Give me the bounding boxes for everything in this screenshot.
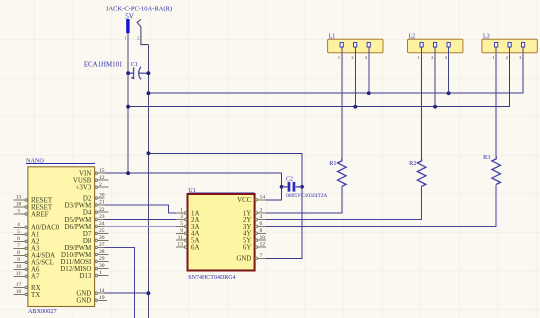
junction GND rail at sleeve [147, 91, 151, 95]
svg-text:2: 2 [99, 182, 102, 188]
svg-text:GND: GND [236, 256, 251, 263]
capacitor C1 [128, 67, 148, 80]
svg-text:2: 2 [137, 36, 139, 41]
svg-text:15: 15 [99, 168, 105, 174]
svg-text:9: 9 [17, 257, 20, 263]
wire D3 to 1A [104, 205, 176, 213]
svg-text:5: 5 [17, 229, 20, 235]
svg-text:10: 10 [16, 264, 22, 270]
svg-text:3: 3 [180, 214, 183, 220]
svg-text:23: 23 [99, 214, 105, 220]
junction C2 left [280, 185, 284, 189]
jack J1 sleeve contact [137, 19, 148, 44]
svg-text:JACK-C-PC-10A-RA(R): JACK-C-PC-10A-RA(R) [106, 6, 172, 13]
svg-text:D3/PWM: D3/PWM [64, 202, 91, 209]
wire L2 pin1 to R2 [421, 53, 423, 158]
svg-text:TX: TX [31, 292, 40, 299]
svg-text:10: 10 [260, 235, 266, 241]
NANO left pin numbers [16, 195, 22, 295]
svg-text:SN74HCT04DRG4: SN74HCT04DRG4 [188, 275, 235, 281]
svg-text:17: 17 [16, 282, 22, 288]
svg-text:D12/MISO: D12/MISO [60, 266, 91, 273]
svg-text:R3: R3 [483, 154, 490, 161]
wire 5V rail to connector pin2s [128, 53, 510, 107]
svg-text:22: 22 [99, 207, 105, 213]
svg-text:A5/SCL: A5/SCL [31, 260, 54, 267]
svg-text:6A: 6A [191, 245, 199, 252]
wire NANO GND to sleeve [104, 292, 148, 294]
junction C1 right on GND net [147, 71, 151, 75]
svg-text:A1: A1 [31, 232, 40, 239]
wire D5 to 2A [104, 219, 176, 221]
wire GND sleeve vertical [147, 45, 149, 318]
wire GND riser to U1 GND pin [266, 187, 302, 258]
svg-text:A3: A3 [31, 246, 40, 253]
svg-text:11: 11 [178, 235, 184, 241]
svg-text:7: 7 [17, 243, 20, 249]
svg-text:4: 4 [260, 214, 263, 220]
svg-text:1: 1 [180, 208, 183, 214]
svg-text:D9/PWM: D9/PWM [64, 245, 91, 252]
svg-text:VUSB: VUSB [73, 178, 92, 185]
svg-text:26: 26 [99, 235, 105, 241]
svg-text:6Y: 6Y [243, 245, 251, 252]
IC U1 SN74HCT04DRG4 [188, 187, 255, 281]
svg-text:1: 1 [124, 36, 126, 41]
resistor R2 [417, 158, 426, 186]
svg-text:8: 8 [260, 228, 263, 234]
svg-text:VCC: VCC [237, 197, 252, 204]
svg-text:C2: C2 [286, 176, 293, 182]
svg-text:ABX00027: ABX00027 [28, 308, 57, 315]
junction GND rail at L1 pin3 [367, 91, 371, 95]
junction GND rail at L2 pin3 [447, 91, 451, 95]
svg-text:C1: C1 [131, 62, 138, 68]
junction 5V rail at L2 pin2 [433, 105, 437, 109]
svg-text:A4/SDA: A4/SDA [31, 253, 55, 260]
svg-text:A2: A2 [31, 239, 40, 246]
svg-text:D7: D7 [83, 231, 92, 238]
NANO left pin names [31, 197, 60, 298]
svg-text:8: 8 [17, 250, 20, 256]
U1 right pins VCC 1Y-6Y GND [255, 199, 266, 260]
svg-text:D11/MOSI: D11/MOSI [61, 259, 92, 266]
svg-text:21: 21 [99, 200, 105, 206]
svg-text:12: 12 [260, 242, 266, 248]
svg-text:12: 12 [99, 175, 105, 181]
svg-text:D4: D4 [83, 210, 92, 217]
svg-text:20: 20 [99, 193, 105, 199]
junction NANO GND at sleeve [147, 291, 151, 295]
svg-text:24: 24 [99, 221, 105, 227]
capacitor C2 [282, 182, 302, 192]
wire 3Y to R3 [266, 184, 496, 226]
svg-text:L1: L1 [329, 34, 336, 40]
svg-text:4: 4 [17, 222, 20, 228]
svg-text:D6/PWM: D6/PWM [64, 224, 91, 231]
connector L2 [408, 34, 463, 107]
wire 1Y to R1 [266, 186, 342, 213]
svg-text:L2: L2 [408, 34, 415, 40]
capacitor C1 polarity mark [131, 77, 133, 79]
svg-text:18: 18 [16, 202, 22, 208]
svg-text:GND: GND [76, 298, 91, 305]
svg-text:2: 2 [260, 208, 263, 214]
wire D9 down off-sheet [104, 247, 134, 318]
svg-text:14: 14 [260, 194, 266, 200]
svg-text:VIN: VIN [79, 171, 91, 178]
junction C1 left on 5V net [126, 71, 130, 75]
junction 5V rail at L1 pin2 [353, 105, 357, 109]
svg-text:25: 25 [99, 228, 105, 234]
connector L3 [482, 34, 537, 60]
U1 left pin numbers [177, 208, 183, 248]
NANO right pins [95, 172, 108, 301]
svg-text:29: 29 [99, 256, 105, 262]
connector L1 [328, 34, 383, 107]
junction C2 right [300, 185, 304, 189]
svg-text:A0/DAC0: A0/DAC0 [31, 225, 60, 232]
U1 left pins 1A-6A [176, 212, 187, 249]
svg-text:A6: A6 [31, 267, 40, 274]
U1 left pin names [191, 210, 199, 251]
svg-text:0805YC103J4T2A: 0805YC103J4T2A [286, 193, 327, 199]
junction VIN at tip wire [126, 171, 130, 175]
svg-text:RESET: RESET [31, 204, 53, 211]
svg-text:D2: D2 [83, 195, 92, 202]
svg-text:1: 1 [99, 270, 102, 276]
svg-text:19: 19 [99, 295, 105, 301]
junction 5V rail at tip [126, 105, 130, 109]
svg-text:3: 3 [17, 209, 20, 215]
svg-text:RX: RX [31, 285, 41, 292]
svg-text:ECA1HM101: ECA1HM101 [84, 62, 123, 69]
svg-text:27: 27 [99, 242, 105, 248]
NANO left pins [14, 199, 28, 296]
svg-text:6: 6 [260, 221, 263, 227]
wire L3 pin1 to R3 [495, 53, 497, 156]
svg-text:6: 6 [17, 236, 20, 242]
svg-text:AREF: AREF [31, 211, 49, 218]
svg-text:D8: D8 [83, 238, 92, 245]
svg-text:11: 11 [16, 271, 22, 277]
svg-text:30: 30 [99, 263, 105, 269]
wire GND branch to U1 [148, 153, 302, 187]
svg-text:28: 28 [99, 249, 105, 255]
resistor R1 [338, 158, 347, 186]
svg-text:D10/PWM: D10/PWM [61, 252, 91, 259]
NANO right pin names [60, 171, 92, 305]
svg-text:13: 13 [16, 195, 22, 201]
svg-text:+3V3: +3V3 [76, 185, 92, 192]
svg-text:GND: GND [76, 291, 91, 298]
svg-text:A7: A7 [31, 274, 40, 281]
U1 right pin numbers [260, 194, 266, 259]
wire D6 to 3A [104, 225, 176, 227]
junction GND branch at sleeve [147, 151, 151, 155]
svg-text:14: 14 [99, 288, 105, 294]
resistor R3 [492, 156, 501, 184]
U1 right pin names [236, 197, 251, 263]
svg-text:R1: R1 [329, 160, 336, 167]
svg-text:RESET: RESET [31, 197, 53, 204]
svg-text:13: 13 [177, 242, 183, 248]
wire 2Y to R2 [266, 186, 422, 219]
svg-text:16: 16 [16, 289, 22, 295]
svg-text:7: 7 [260, 253, 263, 259]
svg-text:5: 5 [180, 221, 183, 227]
svg-text:L3: L3 [483, 34, 490, 40]
wire L1 pin1 to R1 [341, 53, 343, 158]
NANO right pin numbers [99, 168, 105, 301]
svg-text:9: 9 [180, 228, 183, 234]
wire 5V from NANO VIN to C2 [104, 173, 281, 187]
wire GND rail to connector pin3s [148, 53, 523, 93]
svg-text:R2: R2 [409, 160, 416, 167]
svg-text:D13: D13 [79, 273, 91, 280]
wire 5V tip vertical [127, 33, 129, 173]
jack J1 tip contact [126, 19, 129, 33]
MCU module NANO ABX00027 [26, 158, 95, 315]
wire 5V to U1 VCC pin [266, 187, 282, 200]
